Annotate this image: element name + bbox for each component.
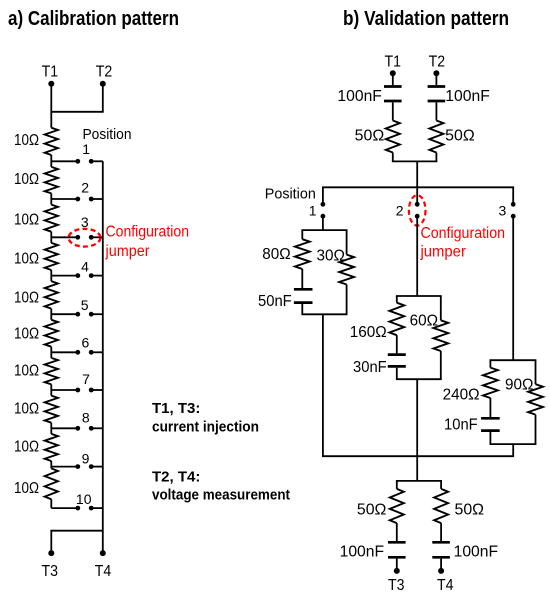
wire 30nF to block2 bottom — [396, 368, 398, 380]
svg-text:30Ω: 30Ω — [317, 248, 345, 265]
capacitor 10nF — [481, 417, 500, 420]
wire rail segment — [50, 461, 52, 468]
wire block1 to bottom bus — [322, 314, 324, 456]
position 3 stub (b) — [512, 187, 514, 204]
svg-text:b) Validation pattern: b) Validation pattern — [343, 8, 509, 30]
wire 50ohm to 100nF (left bottom) — [396, 523, 398, 541]
position 8 tap wire right — [91, 427, 103, 429]
wire T3 vertical — [50, 531, 52, 553]
wire 30ohm to block1 bottom — [346, 285, 348, 315]
resistor R1 10Ω — [45, 128, 58, 155]
position 10 tap wire left — [51, 507, 78, 509]
wire from T1 down to resistor chain — [50, 84, 52, 128]
resistor 60 ohm — [433, 320, 448, 351]
resistor R10 10Ω — [45, 468, 58, 499]
position 1 tap wire right — [91, 160, 103, 162]
terminal T3 (b) — [394, 568, 400, 574]
wire position2 to block2 — [416, 216, 418, 296]
svg-text:5: 5 — [81, 297, 89, 313]
svg-text:3: 3 — [499, 203, 507, 219]
position 2 tap wire left — [51, 198, 78, 200]
resistor 50Ω (right top) — [429, 121, 443, 153]
svg-text:10Ω: 10Ω — [14, 363, 39, 380]
wire rail segment — [50, 270, 52, 281]
svg-text:10Ω: 10Ω — [14, 326, 39, 343]
svg-text:30nF: 30nF — [353, 359, 387, 376]
svg-text:jumper: jumper — [420, 243, 466, 260]
configuration jumper ellipse (position 3) — [69, 229, 101, 247]
position 4 tap wire left — [51, 275, 78, 277]
position 1 tap wire left — [51, 160, 78, 162]
wire position bus — [322, 186, 514, 188]
wire rail segment — [50, 155, 52, 167]
position 2 lower dot (b) — [415, 214, 420, 219]
svg-text:jumper: jumper — [105, 243, 150, 260]
wire position1 to block1 — [322, 216, 324, 230]
wire rail segment — [50, 232, 52, 243]
position 1 upper dot (b) — [321, 202, 326, 207]
wire 100nF to terminal (right bottom) — [440, 559, 442, 571]
position 9 left contact dot — [75, 464, 80, 469]
position 2 stub (b) — [416, 187, 418, 204]
svg-text:100nF: 100nF — [445, 88, 490, 105]
capacitor 50nF — [294, 288, 313, 291]
position 10 right contact dot — [89, 506, 94, 511]
terminal T2 — [100, 81, 106, 87]
wire block2 to bottom bus — [416, 379, 418, 456]
resistor 30 ohm — [339, 255, 354, 285]
svg-text:4: 4 — [81, 259, 89, 275]
resistor 90 ohm — [528, 384, 543, 414]
position 9 tap wire left — [51, 466, 78, 468]
wire 160ohm to 30nF — [396, 335, 398, 353]
svg-text:T4: T4 — [95, 563, 112, 580]
svg-text:Configuration: Configuration — [106, 224, 190, 241]
svg-text:voltage measurement: voltage measurement — [152, 488, 290, 504]
position 5 right contact dot — [89, 312, 94, 317]
wire 80ohm to 50nF — [301, 269, 303, 288]
wire block3 to bottom bus — [512, 444, 514, 456]
svg-text:100nF: 100nF — [337, 88, 382, 105]
svg-text:10Ω: 10Ω — [14, 480, 39, 497]
wire bottom bus — [322, 455, 514, 457]
position 4 tap wire right — [91, 275, 103, 277]
wire splitter horizontal — [396, 480, 442, 482]
wire capacitor to resistor (left) — [392, 102, 394, 120]
wire block3 left lead — [489, 360, 491, 367]
position 5 tap wire left — [51, 313, 78, 315]
position 1 right contact dot — [89, 159, 94, 164]
wire block3 right lead — [535, 360, 537, 384]
resistor 160 ohm — [389, 303, 404, 336]
position 1 stub (b) — [322, 187, 324, 204]
position 8 right contact dot — [89, 426, 94, 431]
position 4 left contact dot — [75, 273, 80, 278]
resistor 50Ω (left top) — [386, 121, 400, 153]
position 3 tap wire right — [91, 236, 103, 238]
wire 90ohm to block3 bottom — [535, 415, 537, 445]
wire 100nF to terminal (left bottom) — [396, 559, 398, 571]
wire T-lead to capacitor (left) — [392, 73, 394, 85]
svg-text:50Ω: 50Ω — [355, 128, 385, 145]
wire rail segment to position 10 — [50, 499, 52, 508]
svg-text:T2, T4:: T2, T4: — [152, 470, 200, 486]
wire block2 right lead — [440, 296, 442, 320]
terminal T3 — [48, 550, 54, 556]
capacitor 100nF (right bottom) — [432, 541, 450, 544]
position 7 tap wire right — [91, 389, 103, 391]
position 9 right contact dot — [89, 464, 94, 469]
svg-text:7: 7 — [82, 371, 90, 387]
position 2 upper dot (b) — [415, 202, 420, 207]
position 3 right contact dot — [89, 235, 94, 240]
svg-text:1: 1 — [82, 141, 90, 157]
svg-text:3: 3 — [81, 214, 89, 230]
wire rail segment — [50, 193, 52, 204]
svg-text:240Ω: 240Ω — [443, 387, 480, 404]
wire center bus to splitter — [416, 456, 418, 481]
capacitor 100nF plates (left top) — [384, 85, 402, 88]
wire 50ohm to 100nF (right bottom) — [440, 523, 442, 541]
wire capacitor to resistor (right) — [435, 102, 437, 120]
position 3 upper dot (b) — [511, 202, 516, 207]
terminal T2 (b) — [433, 70, 439, 76]
wire 240ohm to 10nF — [489, 398, 491, 417]
svg-text:T1: T1 — [384, 53, 401, 70]
wire block2 left lead — [396, 296, 398, 303]
position 7 left contact dot — [75, 388, 80, 393]
resistor R3 10Ω — [45, 205, 58, 232]
position 9 tap wire right — [91, 466, 103, 468]
svg-text:T1, T3:: T1, T3: — [152, 401, 200, 417]
wire splitter to 50ohm (left bottom) — [396, 481, 398, 489]
wire block1 right lead — [346, 230, 348, 255]
position 6 tap wire left — [51, 351, 78, 353]
position 7 right contact dot — [89, 388, 94, 393]
svg-text:100nF: 100nF — [340, 543, 385, 560]
svg-text:10nF: 10nF — [444, 417, 478, 434]
wire bottom horizontal to T3 — [50, 530, 102, 532]
terminal T1 (b) — [390, 70, 396, 76]
wire resistor to rail (left) — [392, 153, 394, 162]
position 4 right contact dot — [89, 273, 94, 278]
resistor R4 10Ω — [45, 243, 58, 270]
resistor R2 10Ω — [45, 167, 58, 194]
wire block2 bottom rail — [396, 378, 442, 380]
svg-text:T3: T3 — [42, 563, 59, 580]
svg-text:10Ω: 10Ω — [14, 401, 39, 418]
wire T1-T2 connector — [50, 111, 103, 113]
wire block2 top rail — [396, 295, 442, 297]
svg-text:50Ω: 50Ω — [445, 128, 475, 145]
svg-text:90Ω: 90Ω — [505, 377, 533, 394]
terminal T4 — [100, 550, 106, 556]
svg-text:10Ω: 10Ω — [14, 211, 39, 228]
wire T-lead to capacitor (right) — [435, 73, 437, 85]
wire resistor to rail (right) — [435, 153, 437, 162]
svg-text:80Ω: 80Ω — [262, 246, 290, 263]
capacitor 30nF — [388, 353, 406, 356]
wire 60ohm to block2 bottom — [440, 351, 442, 379]
wire from T2 down to connector — [102, 84, 104, 112]
position 3 lower dot (b) — [511, 214, 516, 219]
svg-text:2: 2 — [396, 203, 404, 219]
position 1 lower dot (b) — [321, 214, 326, 219]
wire splitter to 50ohm (right bottom) — [440, 481, 442, 489]
svg-text:50Ω: 50Ω — [357, 501, 387, 518]
position 1 left contact dot — [75, 159, 80, 164]
svg-text:Configuration: Configuration — [421, 225, 506, 242]
capacitor 100nF (left bottom) — [388, 541, 406, 544]
position 5 left contact dot — [75, 312, 80, 317]
resistor 50Ω (right bottom) — [434, 489, 448, 523]
svg-text:160Ω: 160Ω — [350, 324, 387, 341]
capacitor 100nF plates (right top) — [428, 85, 446, 88]
svg-text:8: 8 — [82, 410, 90, 426]
wire block3 bottom rail — [490, 443, 537, 445]
wire rail segment — [50, 347, 52, 358]
position 6 left contact dot — [75, 350, 80, 355]
position 6 tap wire right — [91, 351, 103, 353]
wire block1 top rail — [301, 229, 347, 231]
wire 50nF to block1 bottom — [301, 304, 303, 314]
wire rail segment — [50, 309, 52, 320]
position 10 tap wire right — [91, 507, 103, 509]
resistor R6 10Ω — [45, 320, 58, 347]
svg-text:10Ω: 10Ω — [14, 290, 39, 307]
position 10 left contact dot — [75, 506, 80, 511]
wire block3 top rail — [490, 359, 537, 361]
svg-text:T1: T1 — [42, 64, 59, 81]
wire rail segment — [50, 384, 52, 395]
resistor 80 ohm — [295, 239, 310, 269]
position 2 tap wire right — [91, 198, 103, 200]
position 2 left contact dot — [75, 197, 80, 202]
wire 10nF to block3 bottom — [489, 432, 491, 444]
wire center stub to bus — [416, 161, 418, 187]
resistor R8 10Ω — [45, 396, 58, 423]
position 7 tap wire left — [51, 389, 78, 391]
terminal T1 — [48, 81, 54, 87]
resistor 50Ω (left bottom) — [390, 489, 404, 523]
svg-text:10Ω: 10Ω — [14, 251, 39, 268]
svg-text:T2: T2 — [429, 53, 446, 70]
position 3 left contact dot — [75, 235, 80, 240]
resistor R9 10Ω — [45, 434, 58, 461]
position 2 right contact dot — [89, 197, 94, 202]
svg-text:10Ω: 10Ω — [14, 439, 39, 456]
svg-text:50Ω: 50Ω — [455, 501, 485, 518]
wire position3 to block3 — [512, 216, 514, 360]
wire right rail — [102, 161, 104, 553]
wire block1 bottom rail — [301, 313, 347, 315]
svg-text:50nF: 50nF — [258, 293, 292, 310]
svg-text:2: 2 — [81, 179, 89, 195]
position 3 tap wire left — [51, 236, 78, 238]
svg-text:6: 6 — [82, 335, 90, 351]
position 5 tap wire right — [91, 313, 103, 315]
svg-text:T2: T2 — [96, 64, 113, 81]
svg-text:60Ω: 60Ω — [410, 313, 438, 330]
position 6 right contact dot — [89, 350, 94, 355]
position 8 left contact dot — [75, 426, 80, 431]
svg-text:100nF: 100nF — [454, 543, 499, 560]
wire top pair bottom rail — [392, 160, 437, 162]
svg-text:a) Calibration pattern: a) Calibration pattern — [8, 8, 179, 30]
configuration jumper ellipse (position 2, b) — [409, 195, 426, 225]
svg-text:1: 1 — [309, 203, 317, 219]
wire block1 left lead — [301, 230, 303, 239]
resistor 240 ohm — [483, 368, 498, 398]
svg-text:current injection: current injection — [152, 420, 259, 436]
svg-text:10Ω: 10Ω — [14, 171, 39, 188]
svg-text:10: 10 — [76, 491, 92, 507]
svg-text:9: 9 — [82, 451, 90, 467]
position 8 tap wire left — [51, 427, 78, 429]
resistor R7 10Ω — [45, 358, 58, 385]
svg-text:T4: T4 — [437, 577, 454, 594]
wire rail segment — [50, 423, 52, 434]
svg-text:10Ω: 10Ω — [14, 132, 39, 149]
svg-text:T3: T3 — [388, 577, 405, 594]
terminal T4 (b) — [438, 568, 444, 574]
svg-text:Position: Position — [265, 185, 316, 202]
resistor R5 10Ω — [45, 281, 58, 308]
